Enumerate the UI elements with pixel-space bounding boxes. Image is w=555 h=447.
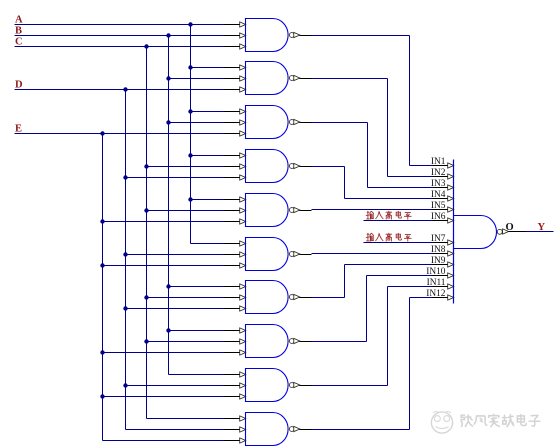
- watermark logo and text (decor): [431, 412, 539, 433]
- svg-text:IN9: IN9: [431, 256, 446, 266]
- U11 pin IN10: [426, 267, 453, 278]
- U11 output pin label O: [506, 222, 514, 233]
- wire input D horizontal: [15, 89, 224, 91]
- wire input C horizontal: [15, 46, 224, 48]
- U11 pin IN2: [431, 168, 454, 179]
- svg-text:IN11: IN11: [427, 278, 446, 288]
- wire input A horizontal: [15, 24, 224, 26]
- svg-text:A: A: [15, 14, 23, 25]
- wire U9 output to IN11: [312, 287, 433, 386]
- junction E line tap: [100, 131, 104, 135]
- svg-text:IN4: IN4: [431, 190, 446, 200]
- wire bus to gate U4 pin 3: [123, 175, 223, 179]
- 3-input NAND gate U6: [224, 238, 312, 271]
- U11 pin IN11: [427, 278, 454, 289]
- U11 pin IN4: [431, 190, 454, 201]
- wire C bus vertical: [146, 47, 148, 419]
- U11 pin IN3: [431, 179, 454, 190]
- wire bus to gate U9 pin 3: [100, 394, 223, 398]
- 3-input NAND gate U1: [224, 19, 312, 52]
- svg-text:Y: Y: [538, 222, 546, 233]
- wire U1 output to IN1: [312, 36, 433, 166]
- U11 pin IN9: [431, 256, 454, 267]
- svg-text:IN12: IN12: [426, 289, 446, 299]
- wire bus to gate U6 pin 2: [123, 252, 223, 256]
- U11 pin IN6: [431, 212, 454, 223]
- 3-input NAND gate U10: [224, 413, 312, 446]
- svg-text:O: O: [506, 222, 514, 233]
- wire input E horizontal: [15, 133, 224, 135]
- svg-text:IN7: IN7: [431, 234, 446, 244]
- wire U3 output to IN3: [312, 123, 433, 188]
- wire U6 output to IN8: [312, 253, 433, 255]
- wire E bus vertical: [102, 134, 104, 441]
- U11 pin IN5: [431, 201, 454, 212]
- svg-text:B: B: [15, 25, 22, 36]
- wire bus to gate U4 pin 1: [188, 153, 223, 157]
- net label tie-high for IN6 (输入高电平): [366, 211, 411, 219]
- wire bus to gate U8 pin 1: [166, 328, 223, 332]
- wire output Y: [526, 231, 554, 233]
- svg-text:IN8: IN8: [431, 245, 446, 255]
- svg-text:IN6: IN6: [431, 212, 446, 222]
- wire bus to gate U5 pin 3: [100, 219, 223, 223]
- wire U7 output to IN9: [312, 265, 433, 298]
- wire bus to gate U5 pin 2: [144, 208, 223, 212]
- svg-text:D: D: [15, 80, 23, 91]
- svg-text:IN3: IN3: [431, 179, 446, 189]
- wire tie-high stub to IN7: [364, 242, 433, 244]
- wire B bus vertical: [168, 36, 170, 375]
- 3-input NAND gate U7: [224, 281, 312, 314]
- wire D bus vertical: [125, 90, 127, 430]
- svg-text:IN10: IN10: [426, 267, 446, 277]
- U11 pin IN8: [431, 245, 454, 256]
- junction B line tap: [166, 33, 170, 37]
- 3-input NAND gate U3: [224, 106, 312, 139]
- wire bus to gate U10 pin 3 (bus corner): [103, 440, 224, 442]
- svg-text:C: C: [15, 36, 23, 47]
- wire bus to gate U2 pin 1: [188, 65, 223, 69]
- wire bus to gate U9 pin 2: [123, 383, 223, 387]
- input net C label: [15, 36, 23, 47]
- wire bus to gate U3 pin 2: [166, 120, 223, 124]
- 3-input NAND gate U9: [224, 369, 312, 402]
- U11 pin IN1: [431, 157, 454, 168]
- svg-text:E: E: [15, 123, 22, 134]
- input net E label: [15, 123, 22, 134]
- wire tie-high stub to IN6: [364, 220, 433, 222]
- input net B label: [15, 25, 22, 36]
- 3-input NAND gate U8: [224, 325, 312, 358]
- wire bus to gate U8 pin 2: [144, 339, 223, 343]
- wire bus to gate U7 pin 3: [123, 306, 223, 310]
- net label tie-high for IN7 (输入高电平): [366, 233, 411, 241]
- wire bus to gate U10 pin 2 (bus corner): [126, 429, 224, 431]
- wire bus to gate U6 pin 3: [100, 263, 223, 267]
- wire A bus vertical: [190, 25, 192, 244]
- output net Y label: [538, 222, 546, 233]
- U11 pin IN7: [431, 234, 454, 245]
- wire bus to gate U8 pin 3: [100, 350, 223, 354]
- input net D label: [15, 80, 23, 91]
- wire bus to gate U4 pin 2: [144, 164, 223, 168]
- wire bus to gate U7 pin 2: [144, 295, 223, 299]
- svg-text:IN5: IN5: [431, 201, 446, 211]
- input net A label: [15, 14, 23, 25]
- 3-input NAND gate U2: [224, 62, 312, 95]
- wire U2 output to IN2: [312, 79, 433, 177]
- wire bus to gate U9 pin 1 (bus corner): [169, 374, 224, 376]
- junction C line tap: [144, 44, 148, 48]
- wire bus to gate U7 pin 1: [166, 284, 223, 288]
- svg-text:IN2: IN2: [431, 168, 446, 178]
- svg-text:IN1: IN1: [431, 157, 446, 167]
- wire bus to gate U6 pin 1 (bus corner): [191, 243, 224, 245]
- wire U10 output to IN12: [312, 298, 433, 430]
- U11 pin IN12: [426, 289, 453, 300]
- 3-input NAND gate U4: [224, 150, 312, 183]
- wire bus to gate U3 pin 1: [188, 109, 223, 113]
- 12-input NAND gate U11: [454, 160, 526, 304]
- 3-input NAND gate U5: [224, 194, 312, 227]
- wire input B horizontal: [15, 35, 224, 37]
- wire bus to gate U5 pin 1: [188, 197, 223, 201]
- wire U8 output to IN10: [312, 276, 433, 342]
- junction D line tap: [123, 87, 127, 91]
- wire bus to gate U10 pin 1 (bus corner): [147, 418, 224, 420]
- wire U5 output to IN5: [312, 209, 433, 211]
- wire U4 output to IN4: [312, 167, 433, 199]
- wire bus to gate U2 pin 2: [166, 76, 223, 80]
- junction A line tap: [188, 22, 192, 26]
